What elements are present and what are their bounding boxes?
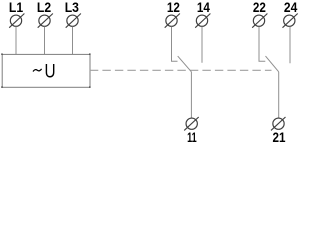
svg-text:21: 21 (273, 129, 286, 145)
terminal L3 (66, 14, 81, 28)
svg-text:L2: L2 (37, 0, 51, 15)
contact lever K2 (21-22 closed) (266, 56, 279, 72)
wire 24 open contact (289, 27, 291, 64)
mechanical linkage dashed line (90, 69, 272, 71)
svg-text:12: 12 (167, 0, 180, 15)
wire 12 to contact seat (172, 27, 178, 62)
svg-text:L1: L1 (9, 0, 23, 15)
corner dot top-left (1, 53, 3, 55)
terminal 22 (252, 14, 267, 28)
terminal 21 (271, 117, 286, 130)
wire L1 to U (15, 27, 17, 55)
terminal 14 (195, 14, 210, 28)
wire L3 to U (72, 27, 74, 55)
label ~ U (33, 69, 42, 72)
corner dot bottom-left (1, 86, 3, 88)
svg-text:14: 14 (197, 0, 210, 15)
wire 14 open contact (201, 27, 203, 63)
svg-text:24: 24 (284, 0, 298, 15)
wire lever to terminal 11 (190, 72, 192, 118)
terminal 12 (165, 14, 180, 28)
terminal L1 (9, 14, 24, 28)
contact lever K1 (11-12 closed) (178, 56, 192, 72)
corner dot bottom-right (89, 86, 91, 88)
wire L2 to U (44, 27, 46, 55)
power supply unit U (2, 54, 90, 87)
wire lever to terminal 21 (278, 72, 280, 118)
svg-text:L3: L3 (65, 0, 79, 15)
svg-text:11: 11 (187, 129, 197, 145)
terminal 11 (184, 117, 199, 130)
corner dot top-right (89, 53, 91, 55)
svg-text:22: 22 (253, 0, 266, 15)
terminal L2 (38, 14, 53, 28)
wire 22 to contact seat (259, 27, 265, 62)
svg-text:U: U (44, 61, 55, 83)
terminal 24 (283, 14, 298, 28)
